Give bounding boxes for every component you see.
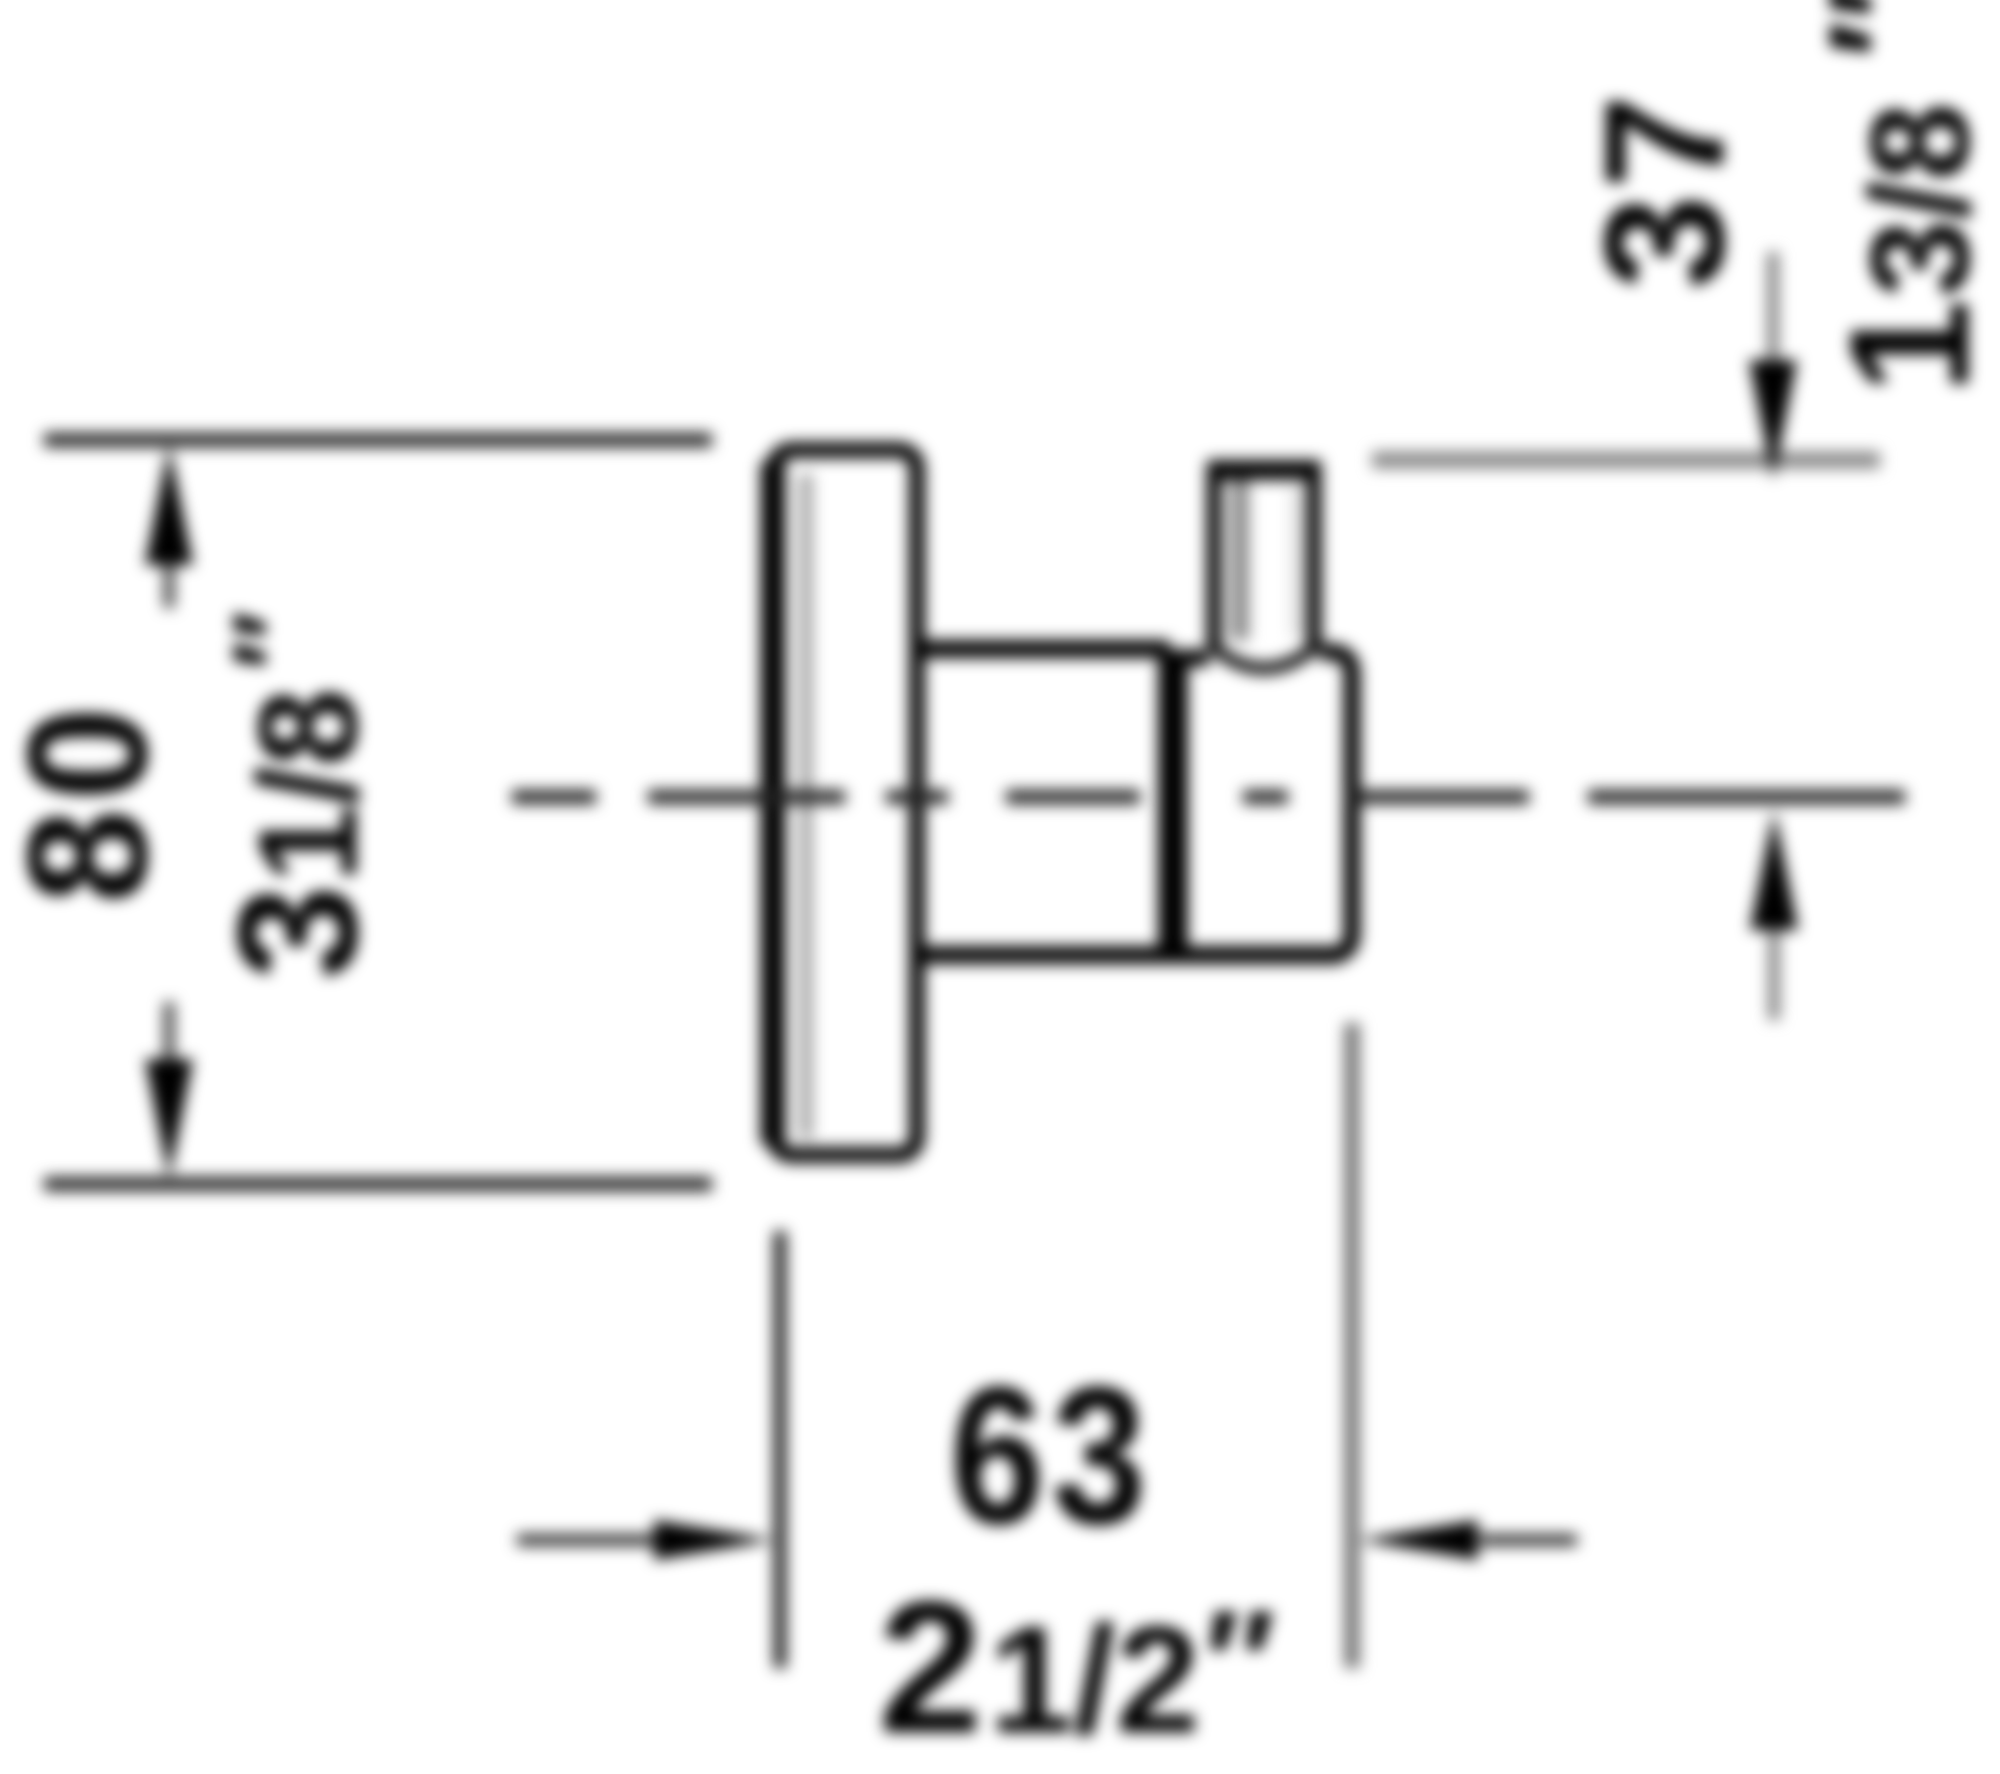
stub pin right edge — [1307, 466, 1322, 650]
center line — [512, 790, 1905, 804]
dim37 up arrow — [1769, 915, 1780, 1020]
arm bottom line — [917, 946, 1340, 964]
dim80 bottom extension line — [44, 1177, 712, 1191]
stub shading right band — [1291, 485, 1303, 638]
dim80 bottom arrow — [164, 1002, 174, 1080]
dim63 left extension line — [774, 1231, 786, 1668]
wall plate — [774, 450, 917, 1155]
stub base ellipse arc — [1214, 648, 1314, 669]
arm top line — [917, 640, 1170, 658]
dim37 down arrow — [1768, 252, 1779, 390]
stub pin left edge — [1207, 466, 1222, 650]
plate left edge thick — [761, 462, 786, 1144]
dim80 top extension line — [44, 433, 712, 447]
dim63 right arrow — [1480, 1535, 1577, 1546]
dim63 left arrow — [517, 1535, 660, 1546]
dim37 top reference line — [1372, 452, 1880, 469]
plate inner shading — [800, 474, 813, 1138]
stub pin top edge — [1207, 460, 1321, 480]
hook body outline — [1171, 652, 1352, 955]
dim63 right extension line — [1345, 1023, 1360, 1668]
hook left edge thick — [1158, 650, 1188, 958]
stub shading left band — [1231, 480, 1249, 640]
dim80 top arrow — [164, 540, 174, 608]
